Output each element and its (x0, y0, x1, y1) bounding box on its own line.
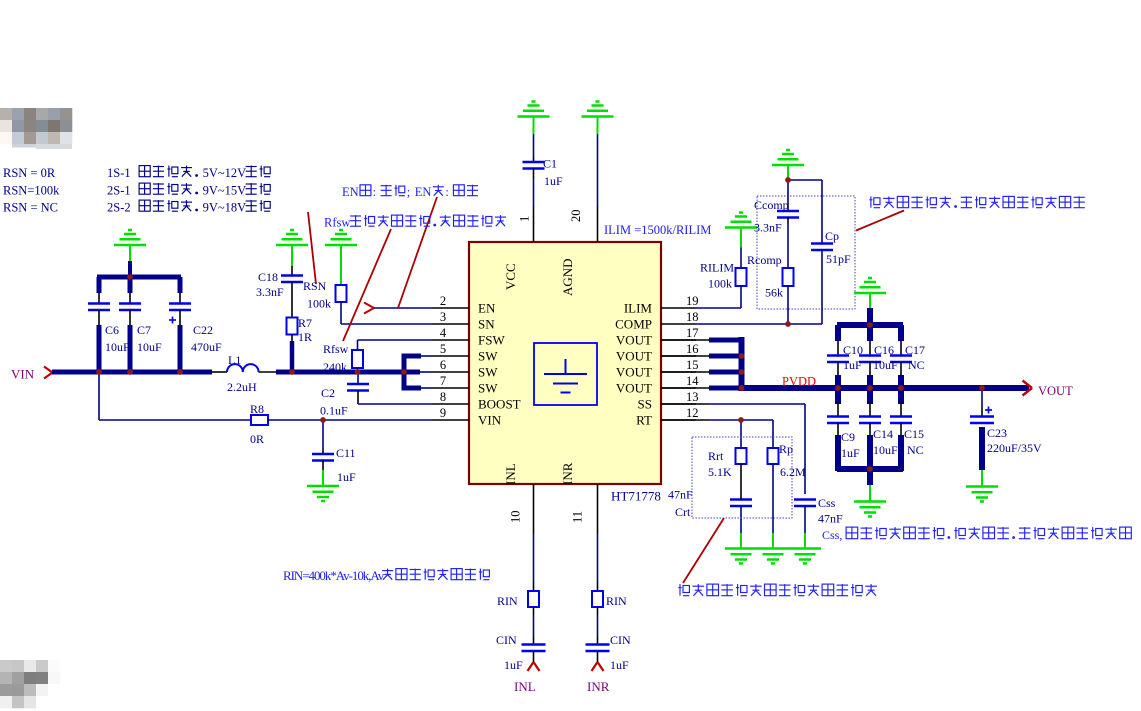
svg-text:RILIM: RILIM (700, 261, 734, 275)
svg-text:C18: C18 (258, 270, 278, 284)
svg-text:100k: 100k (307, 297, 331, 311)
svg-text:SN: SN (478, 317, 495, 332)
svg-text:56k: 56k (765, 286, 783, 300)
svg-text:C22: C22 (193, 323, 213, 337)
svg-text:ILIM =1500k/RILIM: ILIM =1500k/RILIM (604, 223, 711, 237)
svg-text:C2: C2 (321, 386, 335, 400)
svg-text::: : (373, 185, 376, 199)
svg-text:C17: C17 (905, 343, 925, 357)
svg-text:Css: Css (818, 496, 836, 510)
svg-text:1uF: 1uF (610, 658, 629, 672)
svg-text:C6: C6 (105, 323, 119, 337)
svg-text:C15: C15 (904, 427, 924, 441)
svg-text:1uF: 1uF (841, 446, 860, 460)
svg-text:4: 4 (440, 326, 447, 340)
svg-text:13: 13 (686, 390, 699, 404)
svg-text:EN: EN (478, 301, 496, 316)
svg-text:COMP: COMP (615, 317, 652, 332)
svg-text:R7: R7 (298, 316, 312, 330)
svg-text:2S-1: 2S-1 (107, 184, 131, 198)
svg-text:10uF: 10uF (873, 443, 898, 457)
svg-text:11: 11 (571, 511, 585, 523)
svg-text:VOUT: VOUT (616, 333, 652, 348)
svg-text:EN: EN (415, 185, 432, 199)
svg-text:Rfsw: Rfsw (324, 216, 350, 230)
svg-text:6: 6 (440, 358, 446, 372)
svg-text:INR: INR (560, 462, 575, 485)
svg-text:2S-2: 2S-2 (107, 201, 131, 215)
svg-text:15: 15 (686, 358, 699, 372)
svg-text:Css,: Css, (822, 528, 842, 542)
svg-text:VCC: VCC (503, 263, 518, 290)
svg-text:Rrt: Rrt (708, 449, 724, 463)
svg-text:C16: C16 (874, 343, 894, 357)
svg-text:HT71778: HT71778 (611, 489, 661, 504)
svg-text:VIN: VIN (11, 367, 35, 382)
svg-text:1R: 1R (298, 330, 312, 344)
svg-text:14: 14 (686, 374, 699, 388)
svg-text:INL: INL (503, 463, 518, 485)
svg-text:NC: NC (908, 358, 925, 372)
svg-text:VOUT: VOUT (1038, 384, 1073, 398)
svg-text:51pF: 51pF (826, 252, 851, 266)
svg-text:CIN: CIN (496, 633, 517, 647)
svg-text:1: 1 (518, 216, 532, 222)
svg-text:Rfsw: Rfsw (323, 342, 349, 356)
svg-text:RIN=400k*Av-10k,Av: RIN=400k*Av-10k,Av (283, 568, 385, 583)
svg-text:VOUT: VOUT (616, 349, 652, 364)
svg-text:5: 5 (440, 342, 446, 356)
svg-text:R8: R8 (250, 402, 264, 416)
svg-text:1S-1: 1S-1 (107, 166, 131, 180)
svg-text:SW: SW (478, 381, 498, 396)
svg-text:;: ; (407, 185, 410, 199)
svg-text:9: 9 (440, 406, 446, 420)
svg-text:10uF: 10uF (105, 340, 130, 354)
svg-text:0R: 0R (250, 432, 264, 446)
svg-text:CIN: CIN (610, 633, 631, 647)
svg-text:SS: SS (638, 397, 652, 412)
svg-text:3.3nF: 3.3nF (256, 285, 284, 299)
svg-text:Crt: Crt (675, 505, 691, 519)
svg-text:RSN = 0R: RSN = 0R (3, 166, 56, 180)
svg-text:Rcomp: Rcomp (747, 253, 782, 267)
svg-text:1uF: 1uF (544, 174, 563, 188)
svg-text:12: 12 (686, 406, 699, 420)
svg-text:17: 17 (686, 326, 699, 340)
svg-text:Rp: Rp (779, 442, 793, 456)
svg-text:47nF: 47nF (818, 512, 843, 526)
svg-text:C11: C11 (336, 446, 356, 460)
svg-text:INL: INL (514, 679, 536, 694)
svg-text:8: 8 (440, 390, 446, 404)
svg-text:5V~12V: 5V~12V (203, 166, 247, 180)
svg-text:10uF: 10uF (873, 358, 898, 372)
svg-text:INR: INR (587, 679, 610, 694)
svg-text:9V~15V: 9V~15V (203, 184, 247, 198)
svg-text:10: 10 (509, 511, 523, 524)
svg-text:7: 7 (440, 374, 446, 388)
svg-text:Cp: Cp (825, 229, 839, 243)
svg-text:220uF/35V: 220uF/35V (987, 441, 1042, 455)
svg-text:1uF: 1uF (843, 358, 862, 372)
svg-text:6.2M: 6.2M (780, 465, 806, 479)
svg-text:RIN: RIN (606, 594, 627, 608)
svg-text:VIN: VIN (478, 413, 502, 428)
svg-text:C7: C7 (137, 323, 151, 337)
svg-text:1uF: 1uF (504, 658, 523, 672)
svg-text::: : (445, 185, 448, 199)
svg-text:PVDD: PVDD (782, 375, 816, 389)
svg-text:100k: 100k (708, 277, 732, 291)
svg-text:1uF: 1uF (337, 470, 356, 484)
svg-text:19: 19 (686, 294, 699, 308)
svg-text:RSN = NC: RSN = NC (3, 201, 58, 215)
svg-text:RSN=100k: RSN=100k (3, 184, 60, 198)
svg-text:C10: C10 (843, 343, 863, 357)
svg-text:L1: L1 (228, 353, 241, 367)
svg-text:2: 2 (440, 294, 446, 308)
svg-text:FSW: FSW (478, 333, 505, 348)
svg-text:C9: C9 (841, 430, 855, 444)
svg-text:RIN: RIN (497, 594, 518, 608)
svg-text:SW: SW (478, 365, 498, 380)
svg-text:47nF: 47nF (668, 488, 693, 502)
svg-text:BOOST: BOOST (478, 397, 521, 412)
svg-text:18: 18 (686, 310, 699, 324)
svg-text:9V~18V: 9V~18V (203, 201, 247, 215)
svg-text:ILIM: ILIM (624, 301, 653, 316)
svg-text:240k: 240k (323, 360, 347, 374)
svg-text:20: 20 (569, 210, 583, 223)
svg-text:5.1K: 5.1K (708, 465, 732, 479)
svg-text:3: 3 (440, 310, 446, 324)
svg-text:RT: RT (636, 413, 652, 428)
svg-text:470uF: 470uF (191, 340, 222, 354)
svg-text:NC: NC (907, 443, 924, 457)
svg-text:3.3nF: 3.3nF (754, 221, 782, 235)
svg-text:C1: C1 (543, 157, 557, 171)
svg-text:SW: SW (478, 349, 498, 364)
svg-text:16: 16 (686, 342, 699, 356)
svg-text:VOUT: VOUT (616, 365, 652, 380)
svg-text:2.2uH: 2.2uH (227, 380, 257, 394)
svg-text:EN: EN (342, 185, 359, 199)
svg-text:C23: C23 (987, 426, 1007, 440)
svg-text:Ccomp: Ccomp (754, 198, 789, 212)
svg-text:AGND: AGND (560, 258, 575, 296)
svg-text:0.1uF: 0.1uF (320, 404, 348, 418)
svg-text:VOUT: VOUT (616, 381, 652, 396)
svg-text:10uF: 10uF (137, 340, 162, 354)
svg-text:C14: C14 (873, 427, 893, 441)
